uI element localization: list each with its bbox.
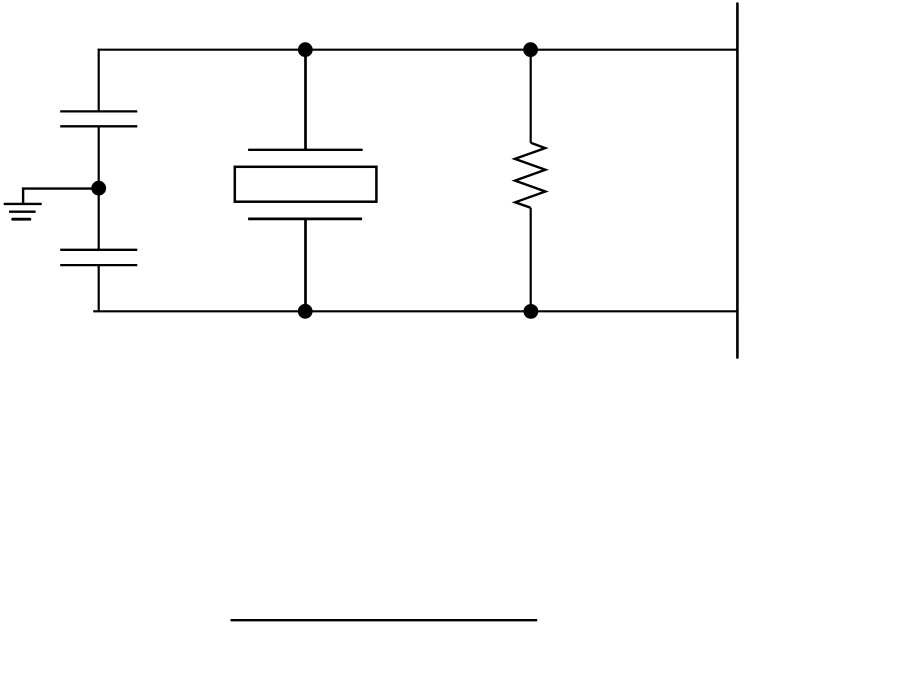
wire crystal lower lead (304, 219, 307, 311)
node junction dot top resistor (523, 42, 538, 57)
wire resistor lower lead (530, 208, 532, 312)
ground (4, 204, 42, 219)
blank caption line (231, 619, 538, 621)
node A junction dot (91, 181, 106, 196)
wire ground lead (23, 189, 99, 204)
wire left branch lower lead (98, 265, 100, 311)
resistor R1 (515, 143, 546, 208)
node junction dot top crystal (298, 42, 313, 57)
wire left branch middle lead (98, 126, 100, 250)
wire left branch upper lead (98, 49, 100, 112)
wire resistor upper lead (530, 50, 532, 143)
wire crystal upper lead (304, 50, 307, 150)
wire top bus (98, 49, 738, 51)
capacitor C2 (60, 250, 137, 265)
wire bottom bus (93, 310, 737, 312)
crystal Y1 (235, 150, 377, 219)
capacitor C1 (60, 111, 137, 126)
node junction dot bottom crystal (298, 304, 313, 319)
wire right vertical rail (736, 4, 739, 358)
node junction dot bottom resistor (524, 304, 539, 319)
